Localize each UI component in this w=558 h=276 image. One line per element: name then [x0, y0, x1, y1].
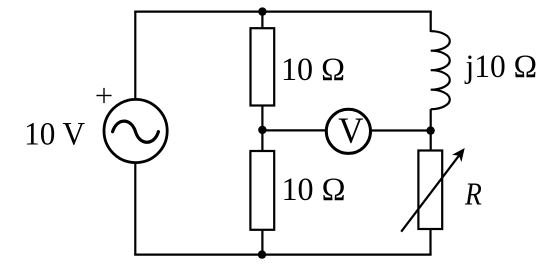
junction node bottom	[258, 250, 266, 258]
variable resistor arrowhead	[452, 148, 465, 162]
wire middle branch top	[261, 12, 263, 29]
wire middle branch lower	[261, 129, 263, 152]
junction node middle	[258, 126, 266, 134]
wire R2 bottom	[261, 230, 263, 255]
svg-text:V: V	[338, 111, 363, 152]
resistor R2 body	[250, 151, 274, 230]
svg-text:j10 Ω: j10 Ω	[465, 49, 537, 85]
wire voltmeter to right node	[369, 129, 431, 131]
svg-text:10 Ω: 10 Ω	[281, 52, 345, 88]
svg-text:R: R	[464, 175, 482, 211]
wire left vertical upper	[134, 12, 136, 100]
variable resistor arrow shaft	[401, 156, 459, 232]
junction node right	[426, 126, 434, 134]
wire R1 bottom to middle node	[261, 106, 263, 132]
junction node top	[258, 7, 266, 15]
wire bottom horizontal	[134, 254, 431, 256]
AC source V1 circle	[104, 99, 167, 162]
wire left vertical lower	[134, 163, 136, 256]
voltmeter U1 circle	[326, 109, 370, 153]
wire R bottom	[429, 229, 431, 255]
polarity plus sign	[96, 88, 111, 103]
wire top horizontal	[134, 10, 432, 12]
svg-text:10 Ω: 10 Ω	[282, 172, 346, 208]
svg-text:10 V: 10 V	[24, 117, 85, 153]
wire inductor bottom to right node	[430, 109, 432, 151]
resistor R body (variable)	[418, 151, 442, 230]
AC source sine wave	[113, 121, 159, 142]
inductor L1 coil	[431, 31, 450, 109]
wire right branch top	[430, 12, 432, 32]
wire middle node to voltmeter	[262, 129, 328, 131]
resistor R1 body	[251, 28, 275, 105]
